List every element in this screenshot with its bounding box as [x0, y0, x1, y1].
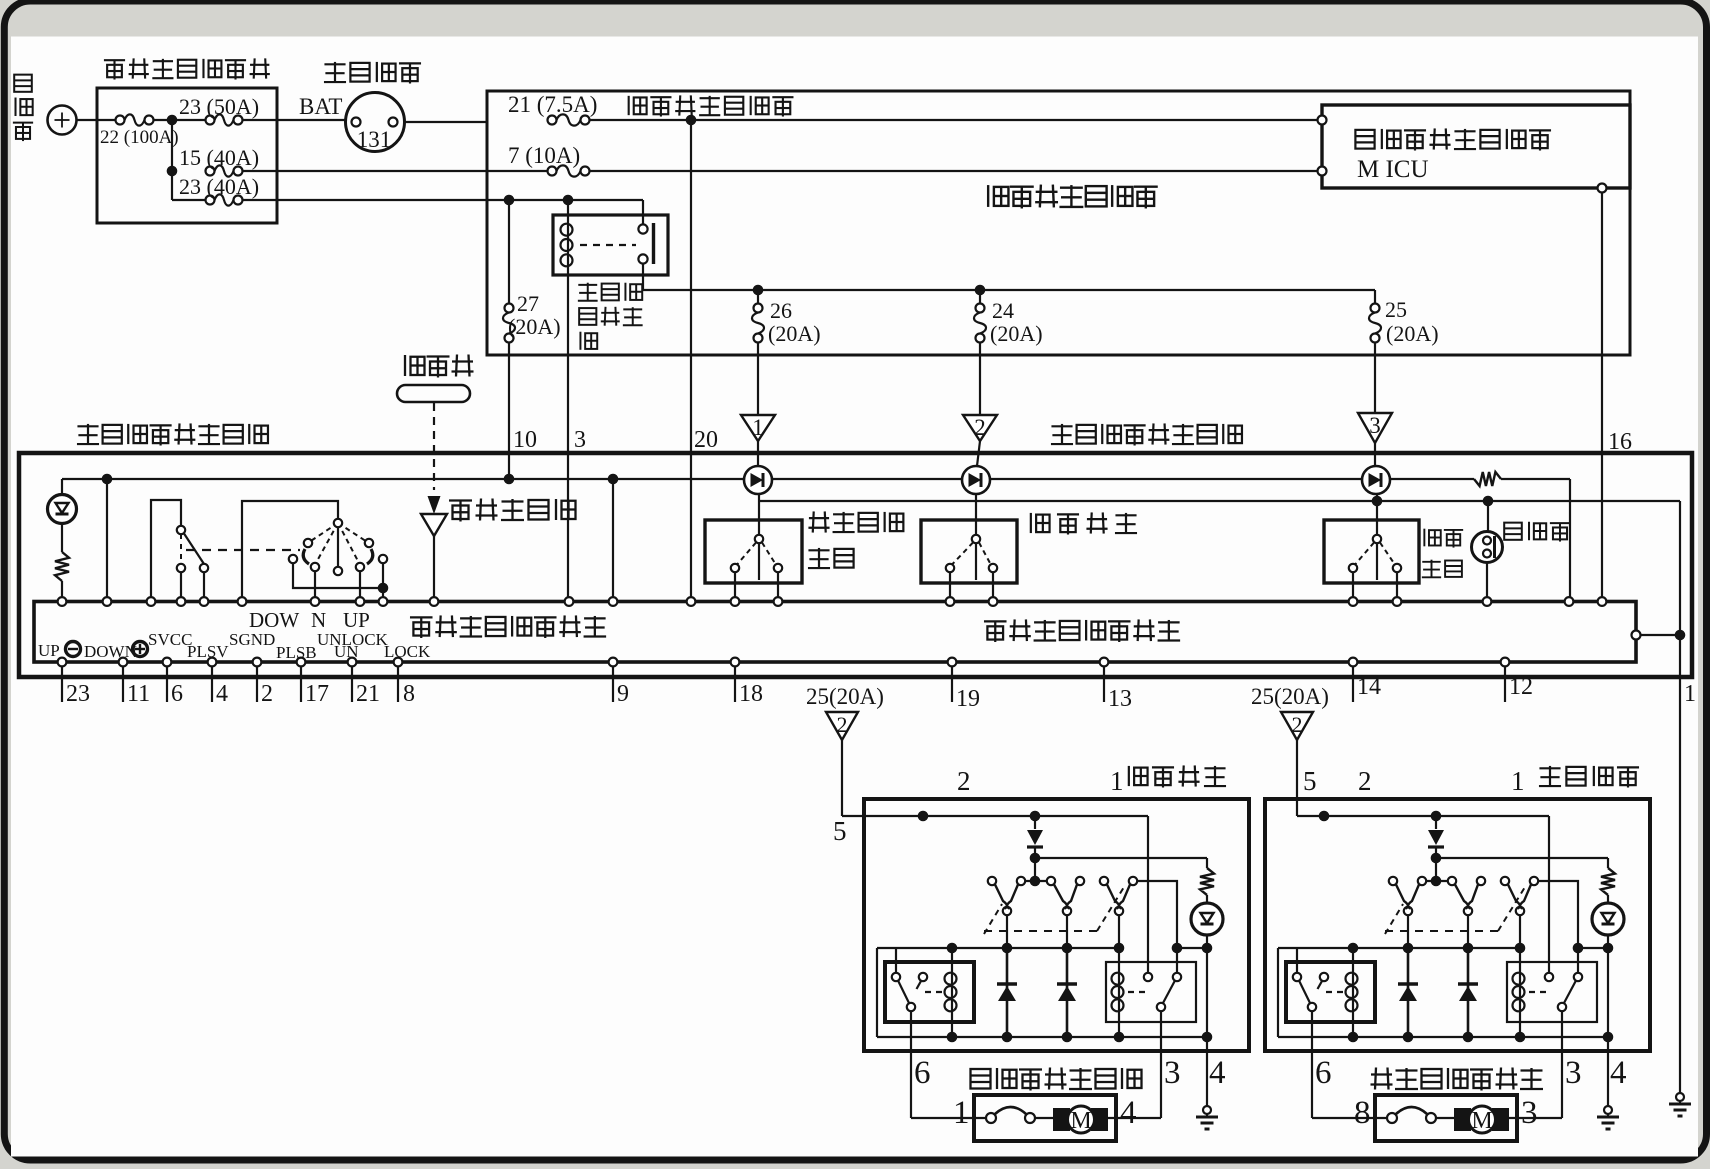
svg-text:9: 9 [617, 681, 629, 707]
svg-text:1: 1 [1684, 681, 1696, 707]
svg-text:6: 6 [171, 681, 183, 707]
svg-text:1: 1 [752, 415, 764, 440]
svg-text:21 (7.5A): 21 (7.5A) [508, 92, 597, 117]
svg-text:25(20A): 25(20A) [806, 684, 884, 709]
svg-text:11: 11 [127, 681, 150, 707]
svg-text:SGND: SGND [229, 630, 275, 649]
svg-text:UP: UP [38, 641, 60, 660]
svg-text:2: 2 [261, 681, 273, 707]
svg-text:17: 17 [305, 681, 329, 707]
svg-text:24: 24 [992, 298, 1014, 323]
svg-text:7 (10A): 7 (10A) [508, 143, 580, 168]
svg-text:131: 131 [357, 127, 392, 152]
svg-text:3: 3 [1521, 1095, 1538, 1131]
svg-text:26: 26 [770, 298, 792, 323]
svg-text:27: 27 [517, 291, 539, 316]
svg-text:M: M [1070, 1108, 1091, 1134]
svg-text:2: 2 [1292, 712, 1303, 737]
svg-text:2: 2 [957, 766, 971, 796]
svg-text:UN: UN [334, 642, 359, 661]
svg-text:DOWN: DOWN [84, 642, 137, 661]
svg-text:4: 4 [216, 681, 228, 707]
svg-text:1: 1 [1110, 766, 1124, 796]
svg-text:21: 21 [356, 681, 380, 707]
svg-text:M: M [1471, 1108, 1492, 1134]
svg-text:22 (100A): 22 (100A) [100, 127, 179, 148]
svg-text:5: 5 [833, 816, 847, 846]
svg-text:15 (40A): 15 (40A) [179, 145, 259, 170]
svg-text:LOCK: LOCK [384, 642, 431, 661]
svg-text:3: 3 [1565, 1055, 1582, 1091]
svg-text:1: 1 [1511, 766, 1525, 796]
svg-text:4: 4 [1209, 1055, 1226, 1091]
svg-text:UP: UP [343, 608, 370, 632]
svg-text:1: 1 [953, 1095, 970, 1131]
svg-text:8: 8 [1354, 1095, 1371, 1131]
svg-text:6: 6 [1315, 1055, 1332, 1091]
svg-text:PLSV: PLSV [187, 642, 229, 661]
svg-text:19: 19 [956, 686, 980, 712]
svg-text:14: 14 [1357, 674, 1381, 700]
svg-text:3: 3 [1369, 413, 1381, 438]
svg-text:12: 12 [1509, 674, 1533, 700]
svg-text:SVCC: SVCC [148, 630, 192, 649]
svg-text:6: 6 [914, 1055, 931, 1091]
svg-text:BAT: BAT [299, 94, 342, 119]
svg-text:5: 5 [1303, 766, 1317, 796]
svg-text:DOW: DOW [249, 608, 299, 632]
svg-text:(20A): (20A) [990, 321, 1043, 346]
svg-text:20: 20 [694, 427, 718, 453]
svg-text:3: 3 [1164, 1055, 1181, 1091]
svg-text:(20A): (20A) [1386, 321, 1439, 346]
svg-text:18: 18 [739, 681, 763, 707]
svg-text:25: 25 [1385, 297, 1407, 322]
svg-text:4: 4 [1610, 1055, 1627, 1091]
svg-text:2: 2 [1358, 766, 1372, 796]
svg-text:23 (50A): 23 (50A) [179, 94, 259, 119]
svg-text:25(20A): 25(20A) [1251, 684, 1329, 709]
svg-text:(20A): (20A) [508, 314, 561, 339]
svg-text:PLSB: PLSB [276, 643, 317, 662]
svg-text:4: 4 [1120, 1095, 1137, 1131]
svg-text:M ICU: M ICU [1357, 156, 1429, 183]
svg-text:23: 23 [66, 681, 90, 707]
svg-text:23 (40A): 23 (40A) [179, 174, 259, 199]
svg-text:8: 8 [403, 681, 415, 707]
svg-text:13: 13 [1108, 686, 1132, 712]
svg-text:10: 10 [513, 427, 537, 453]
svg-text:N: N [311, 608, 326, 632]
svg-text:2: 2 [837, 712, 848, 737]
svg-text:3: 3 [574, 427, 586, 453]
svg-text:(20A): (20A) [768, 321, 821, 346]
svg-text:2: 2 [974, 415, 986, 440]
